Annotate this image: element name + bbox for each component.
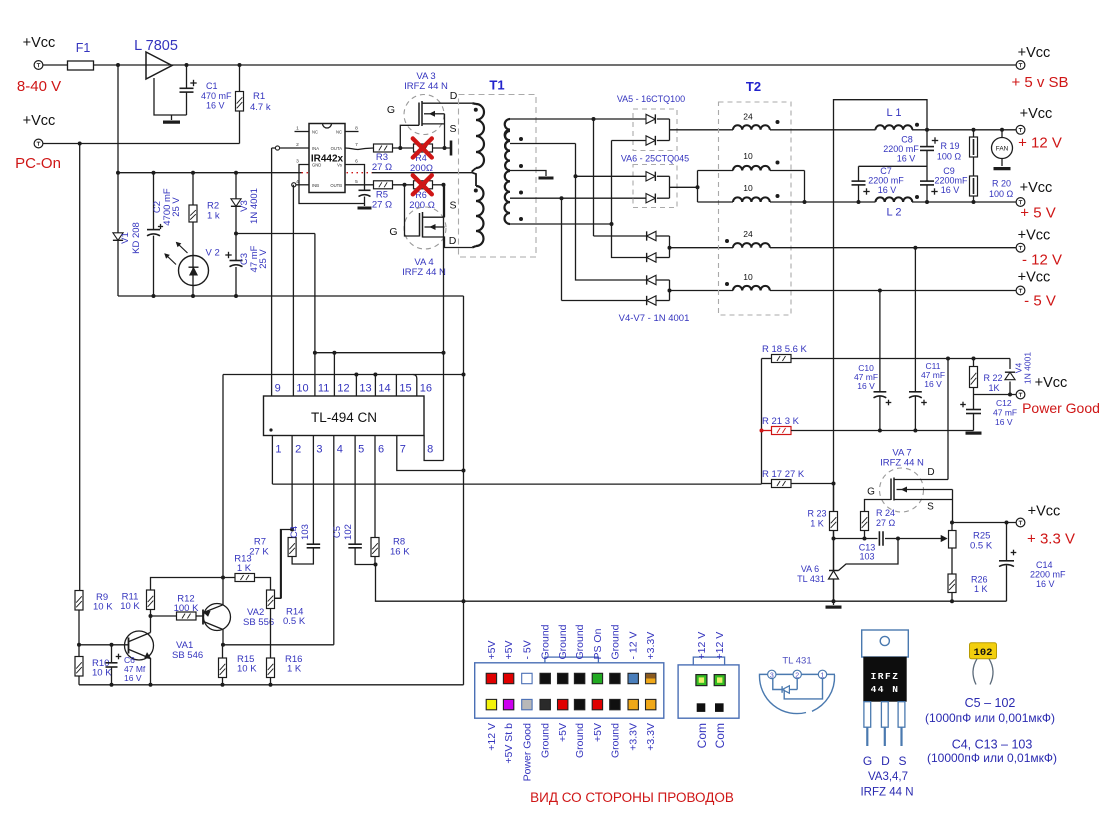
svg-text:10 K: 10 K <box>120 601 140 612</box>
svg-text:- 5 V: - 5 V <box>1024 293 1056 310</box>
svg-text:11: 11 <box>318 383 329 395</box>
svg-text:16 V: 16 V <box>1036 579 1055 589</box>
svg-text:4: 4 <box>337 444 343 456</box>
svg-text:OUTB: OUTB <box>330 183 342 188</box>
svg-text:1: 1 <box>296 126 299 132</box>
svg-text:+Vcc: +Vcc <box>1035 375 1068 391</box>
svg-text:1 k: 1 k <box>207 211 220 222</box>
svg-text:VA6 - 25CTQ045: VA6 - 25CTQ045 <box>621 154 689 164</box>
svg-text:Power Good: Power Good <box>521 723 533 782</box>
svg-text:PS On: PS On <box>592 628 604 659</box>
svg-text:2200mF: 2200mF <box>934 176 968 186</box>
svg-text:+5V: +5V <box>592 723 604 742</box>
svg-text:G: G <box>863 754 872 768</box>
svg-text:5: 5 <box>358 444 364 456</box>
svg-text:+3.3V: +3.3V <box>628 723 640 751</box>
svg-text:5: 5 <box>355 179 358 185</box>
svg-text:G: G <box>867 487 875 498</box>
svg-text:+Vcc: +Vcc <box>1028 504 1061 520</box>
svg-text:G: G <box>389 226 397 238</box>
svg-text:16 K: 16 K <box>390 547 410 558</box>
svg-text:S: S <box>449 123 456 135</box>
svg-text:IRFZ 44 N: IRFZ 44 N <box>880 458 924 469</box>
svg-text:D: D <box>881 754 890 768</box>
svg-text:2200 mF: 2200 mF <box>868 176 904 186</box>
svg-text:24: 24 <box>743 229 753 239</box>
svg-text:R26: R26 <box>971 575 988 585</box>
svg-text:Com: Com <box>713 723 727 748</box>
svg-text:14: 14 <box>378 383 390 395</box>
svg-text:T1: T1 <box>489 78 504 93</box>
svg-text:16 V: 16 V <box>878 185 897 195</box>
svg-text:+Vcc: +Vcc <box>1018 228 1051 244</box>
svg-text:1 K: 1 K <box>287 664 302 675</box>
svg-text:16 V: 16 V <box>924 379 942 389</box>
svg-text:+Vcc: +Vcc <box>1020 106 1053 122</box>
svg-text:10: 10 <box>743 272 753 282</box>
svg-text:+Vcc: +Vcc <box>1018 270 1051 286</box>
svg-text:INA: INA <box>312 146 319 151</box>
svg-text:102: 102 <box>343 524 354 540</box>
svg-text:1 K: 1 K <box>810 519 824 529</box>
svg-text:1N 4001: 1N 4001 <box>249 188 260 224</box>
svg-text:L 1: L 1 <box>887 107 902 119</box>
svg-text:Ground: Ground <box>540 624 552 659</box>
svg-text:0.5 K: 0.5 K <box>283 616 306 627</box>
svg-text:D: D <box>449 235 457 247</box>
svg-text:1 K: 1 K <box>974 584 988 594</box>
svg-text:16 V: 16 V <box>995 417 1013 427</box>
svg-text:FAN: FAN <box>996 146 1009 153</box>
svg-text:Ground: Ground <box>609 723 621 758</box>
svg-text:+Vcc: +Vcc <box>1018 45 1051 61</box>
svg-text:TL-494 CN: TL-494 CN <box>311 410 377 425</box>
svg-text:Power Good: Power Good <box>1022 400 1100 416</box>
svg-text:8-40 V: 8-40 V <box>17 78 61 95</box>
svg-text:S: S <box>449 200 456 212</box>
svg-text:+12 V: +12 V <box>696 632 708 660</box>
svg-text:ВИД СО СТОРОНЫ ПРОВОДОВ: ВИД СО СТОРОНЫ ПРОВОДОВ <box>530 790 734 805</box>
svg-text:L 2: L 2 <box>887 207 902 219</box>
svg-text:- 12 V: - 12 V <box>1022 252 1062 269</box>
svg-text:16 V: 16 V <box>897 154 916 164</box>
svg-text:- 5V: - 5V <box>521 640 533 659</box>
svg-text:Com: Com <box>695 723 709 748</box>
svg-text:IRFZ: IRFZ <box>871 671 900 682</box>
svg-text:C4: C4 <box>289 526 300 538</box>
svg-text:Ground: Ground <box>574 723 586 758</box>
svg-text:C9: C9 <box>943 166 955 176</box>
svg-text:200Ω: 200Ω <box>410 163 433 174</box>
svg-text:C12: C12 <box>996 398 1012 408</box>
svg-text:3: 3 <box>296 159 299 165</box>
svg-text:V1: V1 <box>120 232 131 244</box>
svg-text:C8: C8 <box>901 135 913 145</box>
svg-text:27 K: 27 K <box>249 547 269 558</box>
svg-text:Ground: Ground <box>574 624 586 659</box>
svg-text:1: 1 <box>275 444 281 456</box>
svg-text:S: S <box>898 754 906 768</box>
svg-text:+5V St b: +5V St b <box>503 723 515 764</box>
svg-text:8: 8 <box>355 126 358 132</box>
svg-text:+5V: +5V <box>503 641 515 660</box>
svg-text:2: 2 <box>795 672 799 679</box>
svg-text:V4-V7 - 1N 4001: V4-V7 - 1N 4001 <box>619 313 690 324</box>
svg-text:10 K: 10 K <box>92 668 112 679</box>
svg-text:16 V: 16 V <box>124 673 142 683</box>
svg-text:13: 13 <box>359 383 371 395</box>
svg-text:+5V: +5V <box>486 641 498 660</box>
svg-text:25 V: 25 V <box>258 249 269 269</box>
svg-text:3: 3 <box>770 672 774 679</box>
svg-text:+5V: +5V <box>557 723 569 742</box>
svg-text:Ground: Ground <box>540 723 552 758</box>
svg-text:27 Ω: 27 Ω <box>372 162 392 173</box>
svg-text:10 K: 10 K <box>237 664 257 675</box>
svg-text:SB 546: SB 546 <box>172 650 203 661</box>
svg-text:IRFZ 44 N: IRFZ 44 N <box>402 267 446 278</box>
svg-text:2: 2 <box>296 142 299 148</box>
svg-text:(1000пФ или 0,001мкФ): (1000пФ или 0,001мкФ) <box>925 711 1055 725</box>
svg-text:6: 6 <box>355 159 358 165</box>
svg-text:R 17 27 K: R 17 27 K <box>762 469 805 480</box>
svg-text:8: 8 <box>427 444 433 456</box>
svg-text:G: G <box>387 104 395 116</box>
svg-text:1: 1 <box>821 672 825 679</box>
svg-text:15: 15 <box>399 383 411 395</box>
svg-text:+Vcc: +Vcc <box>23 35 56 51</box>
svg-text:1 K: 1 K <box>237 563 252 574</box>
svg-text:1K: 1K <box>988 383 999 393</box>
svg-text:102: 102 <box>974 647 993 659</box>
svg-text:16: 16 <box>420 383 432 395</box>
svg-text:7: 7 <box>400 444 406 456</box>
svg-text:L 7805: L 7805 <box>134 38 178 54</box>
svg-text:16 V: 16 V <box>941 185 960 195</box>
svg-text:2: 2 <box>295 444 301 456</box>
svg-text:2200 mF: 2200 mF <box>1030 570 1066 580</box>
svg-text:10: 10 <box>743 183 753 193</box>
svg-text:F1: F1 <box>76 41 91 55</box>
svg-text:100 K: 100 K <box>174 603 199 614</box>
svg-text:7: 7 <box>355 142 358 148</box>
svg-text:+ 12 V: + 12 V <box>1018 135 1062 152</box>
svg-text:+Vcc: +Vcc <box>1020 180 1053 196</box>
svg-text:100 Ω: 100 Ω <box>989 189 1014 199</box>
svg-text:9: 9 <box>275 383 281 395</box>
svg-text:R 21 3 K: R 21 3 K <box>762 416 800 427</box>
svg-text:+12 V: +12 V <box>714 632 726 660</box>
svg-text:10 K: 10 K <box>93 602 113 613</box>
svg-text:0.5 K: 0.5 K <box>970 541 993 552</box>
svg-text:R 22: R 22 <box>983 373 1002 383</box>
svg-text:200 Ω: 200 Ω <box>409 200 435 211</box>
svg-text:VA 6: VA 6 <box>801 564 819 574</box>
svg-text:- 12 V: - 12 V <box>628 631 640 659</box>
svg-text:D: D <box>450 90 458 102</box>
svg-text:IRFZ 44 N: IRFZ 44 N <box>860 787 913 799</box>
svg-text:10: 10 <box>743 151 753 161</box>
svg-text:C1: C1 <box>206 81 218 91</box>
svg-text:27 Ω: 27 Ω <box>372 200 392 211</box>
svg-text:TL 431: TL 431 <box>782 656 811 667</box>
svg-text:47 mF: 47 mF <box>993 408 1017 418</box>
svg-text:+ 5 V: + 5 V <box>1020 205 1055 222</box>
svg-text:+3.3V: +3.3V <box>645 632 657 660</box>
svg-text:+Vcc: +Vcc <box>23 113 56 129</box>
svg-text:VA5 - 16CTQ100: VA5 - 16CTQ100 <box>617 94 685 104</box>
svg-text:24: 24 <box>743 112 753 122</box>
svg-text:D: D <box>927 467 934 478</box>
svg-text:V 2: V 2 <box>206 248 220 259</box>
svg-text:103: 103 <box>859 552 874 562</box>
svg-text:103: 103 <box>300 524 311 540</box>
svg-text:R 19: R 19 <box>940 141 959 151</box>
svg-text:Ground: Ground <box>557 624 569 659</box>
svg-text:PC-On: PC-On <box>15 155 61 172</box>
svg-text:T2: T2 <box>746 79 761 94</box>
svg-text:3: 3 <box>316 444 322 456</box>
svg-text:C14: C14 <box>1036 560 1053 570</box>
svg-text:IRFZ 44 N: IRFZ 44 N <box>404 81 448 92</box>
svg-text:470 mF: 470 mF <box>201 91 232 101</box>
svg-text:25 V: 25 V <box>171 197 182 217</box>
svg-text:+12 V: +12 V <box>486 723 498 751</box>
svg-text:+ 5 v SB: + 5 v SB <box>1011 74 1068 91</box>
svg-text:+ 3.3 V: + 3.3 V <box>1027 531 1075 548</box>
svg-text:6: 6 <box>378 444 384 456</box>
svg-text:GND: GND <box>312 163 321 168</box>
svg-text:R1: R1 <box>253 91 265 102</box>
svg-text:2200 mF: 2200 mF <box>883 144 919 154</box>
svg-text:C7: C7 <box>880 166 892 176</box>
svg-text:Ground: Ground <box>609 624 621 659</box>
svg-text:R 18 5.6 K: R 18 5.6 K <box>762 344 808 355</box>
svg-text:VA3,4,7: VA3,4,7 <box>868 771 908 783</box>
svg-text:44 N: 44 N <box>871 684 900 695</box>
svg-text:10: 10 <box>296 383 308 395</box>
svg-text:(10000пФ или 0,01мкФ): (10000пФ или 0,01мкФ) <box>927 751 1057 765</box>
svg-text:C4, C13 – 103: C4, C13 – 103 <box>952 738 1033 752</box>
svg-text:1N 4001: 1N 4001 <box>1023 352 1033 384</box>
svg-text:OUTA: OUTA <box>331 146 343 151</box>
svg-text:C5: C5 <box>332 526 343 538</box>
svg-text:R 20: R 20 <box>992 179 1011 189</box>
svg-text:INB: INB <box>312 183 319 188</box>
svg-text:NC: NC <box>312 130 318 135</box>
svg-text:C5 – 102: C5 – 102 <box>965 696 1016 710</box>
svg-text:NC: NC <box>336 130 342 135</box>
svg-text:4.7 k: 4.7 k <box>250 102 271 113</box>
svg-text:Vs: Vs <box>337 163 342 168</box>
svg-text:16 V: 16 V <box>857 381 875 391</box>
svg-text:12: 12 <box>337 383 349 395</box>
svg-text:100 Ω: 100 Ω <box>937 152 962 162</box>
svg-text:27 Ω: 27 Ω <box>876 518 896 528</box>
svg-text:+3.3V: +3.3V <box>645 723 657 751</box>
svg-text:S: S <box>927 502 934 513</box>
svg-text:R 23: R 23 <box>807 509 826 519</box>
svg-text:16 V: 16 V <box>206 101 225 111</box>
svg-text:TL 431: TL 431 <box>797 574 825 584</box>
svg-text:KD 208: KD 208 <box>131 222 142 254</box>
svg-text:R 24: R 24 <box>876 508 895 518</box>
svg-text:SB 556: SB 556 <box>243 617 274 628</box>
